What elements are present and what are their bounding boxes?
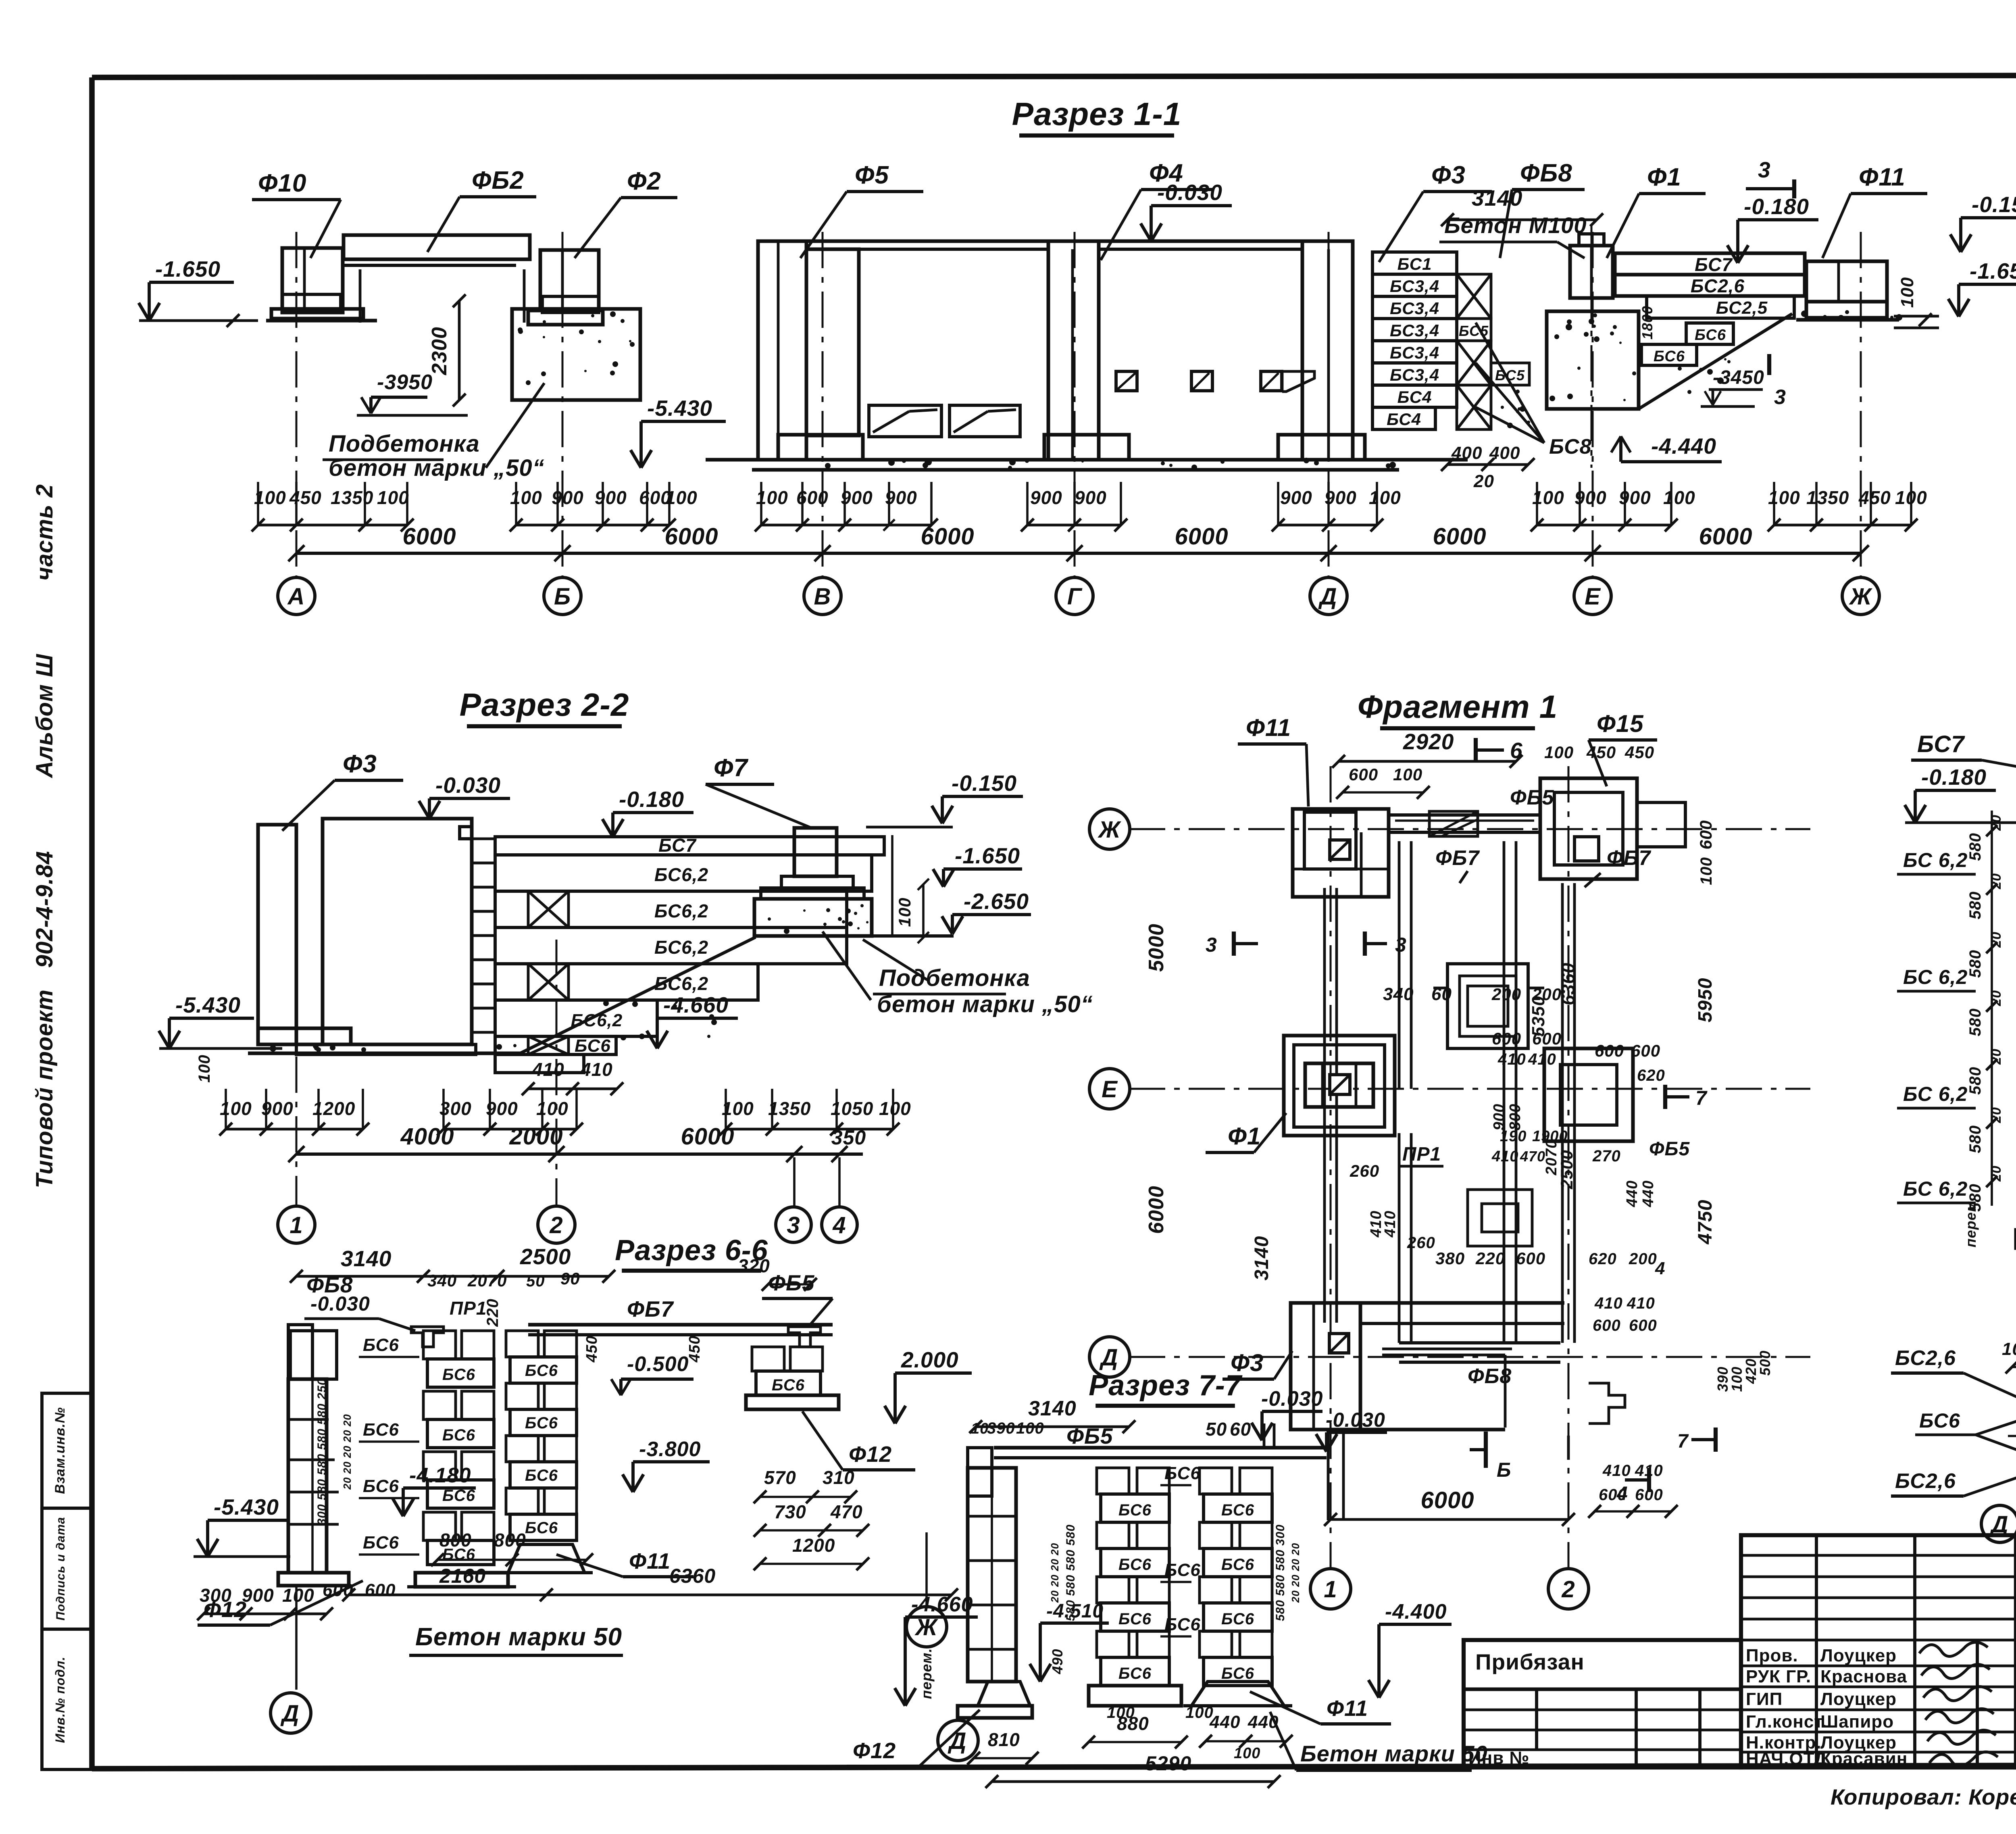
- axis dash line Zh fragment: [1129, 828, 1810, 830]
- svg-text:450: 450: [1858, 487, 1891, 508]
- svg-text:570: 570: [764, 1467, 796, 1488]
- column F2 on axis B: [540, 250, 599, 311]
- left stepped column 6-6: [288, 1325, 312, 1379]
- X blocks 2-2: [528, 891, 569, 927]
- svg-text:перем.: перем.: [918, 1648, 935, 1699]
- svg-text:100: 100: [1768, 487, 1800, 508]
- FB8 beam cross sections hatched column: [1457, 274, 1491, 319]
- svg-text:1350: 1350: [768, 1098, 811, 1119]
- svg-text:100: 100: [1393, 765, 1422, 784]
- svg-text:БС8: БС8: [1549, 435, 1592, 458]
- svg-text:440: 440: [1209, 1712, 1240, 1732]
- svg-text:500: 500: [1757, 1350, 1773, 1375]
- svg-text:-5.430: -5.430: [214, 1494, 279, 1519]
- main 6000 dimension row: [296, 552, 1861, 555]
- svg-text:900: 900: [1030, 487, 1062, 508]
- svg-text:440: 440: [1624, 1180, 1641, 1207]
- svg-text:2.000: 2.000: [901, 1347, 959, 1372]
- svg-text:Б: Б: [1497, 1459, 1511, 1481]
- svg-text:БС7: БС7: [658, 835, 697, 856]
- svg-text:20: 20: [1473, 471, 1494, 491]
- svg-text:БС7: БС7: [1917, 731, 1965, 757]
- extension line pad right: [891, 835, 893, 938]
- svg-text:БС4: БС4: [1387, 410, 1421, 429]
- svg-text:БС6: БС6: [1164, 1615, 1201, 1634]
- excavation slope 2-2: [520, 937, 756, 1053]
- svg-text:620: 620: [1637, 1067, 1665, 1084]
- beam FB5 plan top: [1389, 813, 1540, 817]
- svg-text:490: 490: [1049, 1649, 1066, 1674]
- grid bubble D: [1310, 577, 1347, 615]
- svg-text:Ж: Ж: [1849, 584, 1873, 610]
- svg-text:7: 7: [1677, 1431, 1689, 1452]
- svg-text:2500: 2500: [1557, 1150, 1576, 1189]
- grid bubble D 5-5: [1981, 1505, 2016, 1542]
- svg-text:100: 100: [1107, 1704, 1135, 1721]
- svg-text:400: 400: [1451, 443, 1482, 463]
- svg-text:БС6,2: БС6,2: [571, 1011, 623, 1030]
- svg-text:350: 350: [831, 1126, 866, 1149]
- svg-text:100: 100: [196, 1055, 213, 1083]
- svg-text:580: 580: [1966, 833, 1984, 861]
- axis line G: [1074, 232, 1076, 577]
- svg-text:БС2,5: БС2,5: [1716, 298, 1768, 318]
- wall F3 left of 2-2: [258, 825, 296, 1044]
- svg-text:300 580 580 580 580 250: 300 580 580 580 580 250: [315, 1378, 329, 1526]
- svg-text:БС4: БС4: [1397, 388, 1432, 406]
- svg-text:БС2,6: БС2,6: [1691, 275, 1745, 296]
- svg-text:-2.650: -2.650: [964, 889, 1029, 914]
- section mark B bottom: [1484, 1432, 1488, 1468]
- svg-text:2000: 2000: [509, 1123, 563, 1150]
- small BS6 blocks right: [1686, 323, 1733, 344]
- svg-text:580: 580: [1966, 1008, 1984, 1036]
- svg-text:10: 10: [2002, 1339, 2016, 1359]
- svg-text:БС6: БС6: [1221, 1556, 1254, 1573]
- svg-text:100: 100: [1697, 857, 1715, 885]
- svg-text:900: 900: [1619, 487, 1651, 508]
- center connection unit PR1: [1447, 964, 1528, 1048]
- svg-text:4: 4: [1655, 1259, 1665, 1278]
- svg-text:БС 6,2: БС 6,2: [1903, 849, 1968, 871]
- svg-text:Д: Д: [1099, 1344, 1118, 1371]
- svg-text:Ф10: Ф10: [258, 169, 306, 197]
- svg-text:Д: Д: [1318, 584, 1337, 610]
- plan detail bottom right of fragment: [1327, 1430, 1330, 1520]
- svg-text:-0.030: -0.030: [1157, 180, 1223, 205]
- svg-text:100: 100: [220, 1098, 252, 1119]
- svg-text:БС6,2: БС6,2: [654, 937, 708, 958]
- svg-text:800: 800: [439, 1530, 472, 1551]
- svg-text:5950: 5950: [1695, 978, 1716, 1023]
- svg-text:20 20 20 20: 20 20 20 20: [1049, 1543, 1061, 1603]
- axis line V: [822, 232, 824, 577]
- svg-text:6000: 6000: [1699, 523, 1752, 550]
- svg-text:-3950: -3950: [377, 371, 433, 394]
- svg-text:Ф1: Ф1: [1647, 163, 1681, 191]
- small openings in wall D span: [1116, 371, 1137, 391]
- svg-text:380: 380: [1435, 1249, 1465, 1268]
- grid bubble 2 fragment: [1548, 1569, 1589, 1609]
- svg-text:ФБ5: ФБ5: [1649, 1138, 1690, 1160]
- svg-text:БС 6,2: БС 6,2: [1903, 1083, 1968, 1105]
- svg-text:БС6: БС6: [525, 1362, 558, 1380]
- svg-text:ФБ7: ФБ7: [627, 1296, 674, 1321]
- column F7 top: [794, 828, 837, 876]
- excavation slope line: [1639, 314, 1792, 409]
- svg-text:3: 3: [787, 1212, 800, 1238]
- roof slab V-G: [806, 240, 1073, 243]
- svg-text:600: 600: [1532, 1029, 1562, 1048]
- foundation pad under V: [778, 435, 863, 460]
- svg-text:ФБ7: ФБ7: [1607, 846, 1651, 870]
- svg-text:6000: 6000: [1433, 523, 1486, 550]
- svg-text:Лоуцкер: Лоуцкер: [1820, 1689, 1897, 1709]
- right column stack 6-6: [752, 1347, 784, 1371]
- svg-text:900: 900: [1280, 487, 1312, 508]
- svg-text:БС6: БС6: [363, 1476, 399, 1496]
- svg-text:220: 220: [484, 1298, 502, 1327]
- svg-text:БС6: БС6: [363, 1533, 399, 1553]
- svg-text:Е: Е: [1585, 584, 1601, 610]
- svg-text:1350: 1350: [331, 487, 373, 508]
- grid bubble B: [544, 577, 581, 615]
- grid bubble D fragment: [1089, 1337, 1130, 1377]
- foundation pads 2-2: [258, 1028, 351, 1044]
- svg-text:РУК ГР.: РУК ГР.: [1746, 1667, 1811, 1686]
- svg-text:60: 60: [1230, 1419, 1251, 1440]
- svg-text:90: 90: [560, 1269, 580, 1288]
- svg-text:580: 580: [1966, 1067, 1984, 1095]
- svg-text:600: 600: [365, 1580, 396, 1600]
- axis line B: [562, 232, 564, 577]
- svg-text:20: 20: [1989, 1165, 2004, 1182]
- svg-text:20: 20: [1989, 990, 2004, 1007]
- svg-text:Бетон М100: Бетон М100: [1444, 213, 1587, 238]
- grid bubble 4 of 2-2: [822, 1207, 857, 1242]
- svg-text:100: 100: [1663, 487, 1695, 508]
- wall vertical axis2 fragment: [1561, 883, 1564, 1343]
- right footing plan E level: [1544, 1048, 1633, 1141]
- svg-text:Ж: Ж: [1098, 817, 1122, 843]
- svg-text:2160: 2160: [439, 1565, 486, 1587]
- vertical beam FB7 middle pair: [1503, 841, 1506, 1343]
- svg-text:БС6: БС6: [363, 1335, 399, 1355]
- beam FB7 6-6: [528, 1323, 833, 1327]
- grid bubble V: [804, 577, 841, 615]
- axis dash line D fragment: [1129, 1356, 1810, 1358]
- svg-text:450: 450: [1586, 743, 1616, 762]
- svg-text:100: 100: [1016, 1419, 1044, 1437]
- svg-text:Ф11: Ф11: [629, 1548, 671, 1573]
- svg-text:3: 3: [1206, 934, 1217, 956]
- wall on axis G: [1048, 241, 1099, 460]
- svg-text:2070: 2070: [467, 1271, 507, 1290]
- svg-text:часть 2: часть 2: [31, 484, 58, 581]
- svg-text:1800: 1800: [1639, 306, 1656, 340]
- svg-text:5290: 5290: [1145, 1752, 1191, 1775]
- svg-text:ФБ5: ФБ5: [1510, 786, 1554, 809]
- svg-text:Ф15: Ф15: [1597, 710, 1644, 737]
- svg-text:Бетон марки 50: Бетон марки 50: [415, 1623, 622, 1651]
- svg-text:БС6: БС6: [1164, 1560, 1201, 1580]
- svg-text:Пров.: Пров.: [1746, 1646, 1798, 1665]
- svg-text:600: 600: [1631, 1041, 1660, 1060]
- svg-text:580: 580: [1966, 891, 1984, 919]
- svg-text:БС6: БС6: [1118, 1556, 1152, 1573]
- svg-text:3140: 3140: [1028, 1397, 1077, 1420]
- extension lines 2-2 dims: [225, 1089, 227, 1129]
- svg-text:600: 600: [1629, 1317, 1657, 1334]
- svg-text:410: 410: [1497, 1050, 1526, 1068]
- svg-text:20: 20: [1989, 815, 2004, 831]
- svg-text:БС1: БС1: [1397, 254, 1432, 273]
- BS block rows stepped wall: [1372, 252, 1457, 274]
- svg-text:БС6,2: БС6,2: [654, 864, 708, 885]
- svg-text:6360: 6360: [669, 1565, 716, 1587]
- svg-text:-3450: -3450: [1713, 367, 1764, 388]
- svg-text:10: 10: [971, 1420, 989, 1437]
- grid bubble Zh 6-6: [925, 1532, 928, 1607]
- svg-text:3: 3: [1758, 157, 1771, 182]
- svg-text:260: 260: [1407, 1234, 1435, 1252]
- footing F1 plan middle: [1284, 1036, 1395, 1136]
- beam BS2,6 right: [1615, 275, 1805, 296]
- svg-text:810: 810: [988, 1729, 1020, 1750]
- svg-text:600: 600: [1595, 1041, 1624, 1060]
- grid bubble A: [278, 577, 315, 615]
- svg-text:6000: 6000: [402, 523, 456, 550]
- svg-text:450: 450: [289, 487, 322, 508]
- concrete pier axis E with speckles: [1547, 311, 1639, 409]
- column F11 on axis Zh: [1806, 261, 1887, 302]
- svg-text:470: 470: [830, 1501, 863, 1522]
- svg-text:20 20 20 20: 20 20 20 20: [1289, 1543, 1302, 1603]
- svg-text:800: 800: [494, 1530, 526, 1551]
- svg-text:-4.180: -4.180: [409, 1464, 471, 1487]
- column F10 on axis A: [282, 248, 343, 313]
- svg-text:600: 600: [1599, 1486, 1627, 1504]
- svg-text:Ф2: Ф2: [627, 167, 661, 195]
- svg-text:20: 20: [1989, 932, 2004, 948]
- svg-text:Копировал: Корецкая: Копировал: Корецкая: [1831, 1784, 2016, 1809]
- svg-text:БС3,4: БС3,4: [1390, 299, 1439, 318]
- title block signatures squiggles: [1919, 1642, 1988, 1656]
- svg-text:Гл.конст.: Гл.конст.: [1746, 1712, 1827, 1732]
- svg-text:ГИП: ГИП: [1746, 1689, 1783, 1709]
- bottom plan details fragment: [1360, 1301, 1564, 1305]
- section mark 3 lower: [1767, 354, 1771, 375]
- svg-text:7: 7: [1695, 1087, 1708, 1109]
- svg-text:Подбетонка: Подбетонка: [329, 431, 480, 457]
- svg-text:БС6: БС6: [1118, 1610, 1152, 1628]
- svg-text:310: 310: [823, 1467, 855, 1488]
- svg-text:-1.650: -1.650: [955, 843, 1020, 868]
- window opening with diagonal left: [869, 405, 941, 437]
- svg-text:-5.430: -5.430: [647, 396, 712, 421]
- svg-text:-4.660: -4.660: [911, 1593, 973, 1616]
- svg-text:5000: 5000: [1145, 923, 1168, 972]
- svg-text:А: А: [287, 584, 305, 610]
- svg-text:БС6: БС6: [1164, 1463, 1201, 1483]
- svg-text:100: 100: [377, 487, 409, 508]
- svg-text:БС6,2: БС6,2: [654, 900, 708, 921]
- svg-text:4000: 4000: [400, 1123, 454, 1150]
- svg-text:2920: 2920: [1403, 729, 1454, 754]
- svg-text:6000: 6000: [1175, 523, 1228, 550]
- foundation pad under D: [1278, 435, 1365, 460]
- svg-text:600: 600: [1516, 1249, 1545, 1268]
- svg-text:20: 20: [1989, 873, 2004, 890]
- svg-text:Ф7: Ф7: [714, 754, 748, 782]
- svg-text:260: 260: [1350, 1161, 1379, 1180]
- grid bubble G: [1056, 577, 1093, 615]
- axis vline 2 fragment: [1568, 766, 1570, 1569]
- dim row 4000 2000 6000 350: [296, 1153, 863, 1156]
- tee beam profile 6-6: [411, 1327, 444, 1347]
- svg-text:ФБ5: ФБ5: [1066, 1423, 1113, 1448]
- svg-text:Инв №: Инв №: [1468, 1748, 1530, 1768]
- svg-text:6000: 6000: [1420, 1487, 1474, 1513]
- svg-text:50: 50: [526, 1272, 545, 1290]
- svg-text:Инв.№ подл.: Инв.№ подл.: [53, 1657, 67, 1743]
- svg-text:Ф3: Ф3: [1431, 161, 1466, 189]
- svg-text:перем.: перем.: [1962, 1196, 1979, 1248]
- svg-text:190: 190: [1500, 1128, 1527, 1145]
- svg-text:Разрез 7-7: Разрез 7-7: [1089, 1369, 1243, 1402]
- svg-text:900: 900: [552, 487, 584, 508]
- axis line Zh: [1860, 232, 1862, 577]
- svg-text:Ф12: Ф12: [853, 1738, 896, 1763]
- svg-text:Взам.инв.№: Взам.инв.№: [52, 1407, 68, 1494]
- wall on axis V: [758, 241, 806, 460]
- svg-text:50: 50: [1206, 1419, 1227, 1440]
- svg-text:600: 600: [1349, 765, 1378, 784]
- svg-text:-1.650: -1.650: [155, 256, 221, 281]
- svg-text:БС6: БС6: [525, 1414, 558, 1432]
- svg-text:Лоуцкер: Лоуцкер: [1820, 1646, 1897, 1665]
- svg-text:ФБ5: ФБ5: [768, 1270, 815, 1295]
- svg-text:-5.430: -5.430: [175, 992, 241, 1017]
- svg-text:600: 600: [796, 487, 829, 508]
- 5-5 center line: [2008, 1435, 2016, 1437]
- svg-text:ФБ7: ФБ7: [1435, 846, 1480, 870]
- svg-text:Краснова: Краснова: [1820, 1667, 1907, 1686]
- svg-text:Ф12: Ф12: [849, 1442, 892, 1467]
- axis line A: [296, 232, 298, 577]
- svg-text:580: 580: [1966, 950, 1984, 978]
- svg-text:1350: 1350: [1806, 487, 1849, 508]
- svg-text:4: 4: [832, 1212, 846, 1238]
- svg-text:100: 100: [895, 897, 914, 927]
- section marks 7 and 4 fragment: [1663, 1085, 1667, 1109]
- foundation pad under G: [1044, 435, 1129, 460]
- footing plan top right F15: [1540, 778, 1637, 879]
- svg-text:2: 2: [549, 1212, 563, 1238]
- svg-text:Ф5: Ф5: [855, 161, 889, 189]
- svg-text:6000: 6000: [681, 1123, 734, 1150]
- svg-text:БС6: БС6: [1118, 1501, 1152, 1519]
- svg-text:Разрез 1-1: Разрез 1-1: [1012, 96, 1182, 132]
- svg-text:900: 900: [595, 487, 627, 508]
- svg-text:БС6: БС6: [1221, 1610, 1254, 1628]
- svg-text:ПР1: ПР1: [1402, 1144, 1441, 1165]
- svg-text:Ф1: Ф1: [1228, 1123, 1261, 1150]
- footing F11 plan top left: [1293, 809, 1389, 897]
- svg-text:-0.030: -0.030: [1261, 1387, 1323, 1411]
- roof slab G-D: [1099, 240, 1331, 243]
- svg-text:1200: 1200: [792, 1535, 835, 1556]
- svg-text:Типовой проект: Типовой проект: [31, 989, 58, 1188]
- svg-text:Д: Д: [280, 1701, 300, 1727]
- svg-text:БС6: БС6: [525, 1519, 558, 1537]
- steps on right edge of wall 2-2: [472, 839, 495, 863]
- svg-text:Ф11: Ф11: [1327, 1696, 1368, 1721]
- svg-text:БС6: БС6: [363, 1420, 399, 1440]
- svg-text:100: 100: [1369, 487, 1401, 508]
- svg-text:Подпись и дата: Подпись и дата: [54, 1517, 67, 1620]
- svg-text:100: 100: [510, 487, 542, 508]
- floor slab line with speckle strip: [706, 458, 1468, 462]
- svg-text:100: 100: [879, 1098, 911, 1119]
- svg-text:20: 20: [1989, 1107, 2004, 1123]
- svg-text:2500: 2500: [520, 1244, 571, 1269]
- svg-text:900: 900: [1075, 487, 1107, 508]
- svg-text:БС6: БС6: [1118, 1665, 1152, 1682]
- svg-text:НАЧ.ОТД: НАЧ.ОТД: [1746, 1749, 1827, 1769]
- svg-text:410: 410: [532, 1059, 564, 1080]
- grid bubble D 6-6: [271, 1693, 311, 1733]
- svg-text:-0.030: -0.030: [1326, 1409, 1385, 1431]
- svg-text:3140: 3140: [341, 1246, 392, 1271]
- grid bubble E: [1574, 577, 1611, 615]
- svg-text:БС3,4: БС3,4: [1390, 277, 1439, 296]
- 4-4 left dim ladder: [1991, 811, 1993, 1206]
- svg-text:450: 450: [583, 1336, 600, 1363]
- svg-text:-4.660: -4.660: [663, 992, 729, 1017]
- svg-text:410: 410: [1382, 1211, 1399, 1238]
- svg-text:Ф11: Ф11: [1246, 714, 1291, 741]
- svg-text:-1.650: -1.650: [1970, 258, 2016, 283]
- svg-text:3: 3: [1774, 386, 1786, 409]
- svg-text:ФБ8: ФБ8: [1520, 159, 1572, 187]
- svg-text:БС 6,2: БС 6,2: [1903, 1178, 1968, 1200]
- svg-text:410: 410: [1635, 1462, 1663, 1480]
- svg-text:6000: 6000: [1145, 1186, 1168, 1234]
- stack A 7-7: [1097, 1468, 1129, 1494]
- svg-text:410: 410: [1602, 1462, 1631, 1480]
- grid bubble Zh fragment: [1089, 809, 1130, 849]
- svg-text:20 20 20 20 20: 20 20 20 20 20: [341, 1414, 353, 1490]
- svg-text:Красавин: Красавин: [1820, 1749, 1908, 1769]
- right lower tee details fragment: [1589, 1383, 1625, 1423]
- svg-text:2300: 2300: [428, 327, 451, 375]
- svg-text:600: 600: [1696, 820, 1715, 849]
- left margin stamp boxes: [42, 1393, 92, 1508]
- svg-text:Ф3: Ф3: [343, 750, 377, 778]
- svg-text:Ф12: Ф12: [204, 1597, 247, 1622]
- svg-text:-4.510: -4.510: [1046, 1601, 1104, 1622]
- beam BS2,5 right: [1647, 296, 1794, 318]
- svg-text:3: 3: [1395, 934, 1407, 956]
- svg-text:-4.440: -4.440: [1651, 433, 1716, 458]
- grid bubble Zh: [1842, 577, 1879, 615]
- svg-text:6000: 6000: [921, 523, 974, 550]
- footing F3 plan bottom: [1291, 1303, 1360, 1430]
- svg-text:-0.030: -0.030: [435, 773, 501, 798]
- svg-text:1: 1: [289, 1212, 303, 1238]
- svg-text:620: 620: [1589, 1250, 1617, 1268]
